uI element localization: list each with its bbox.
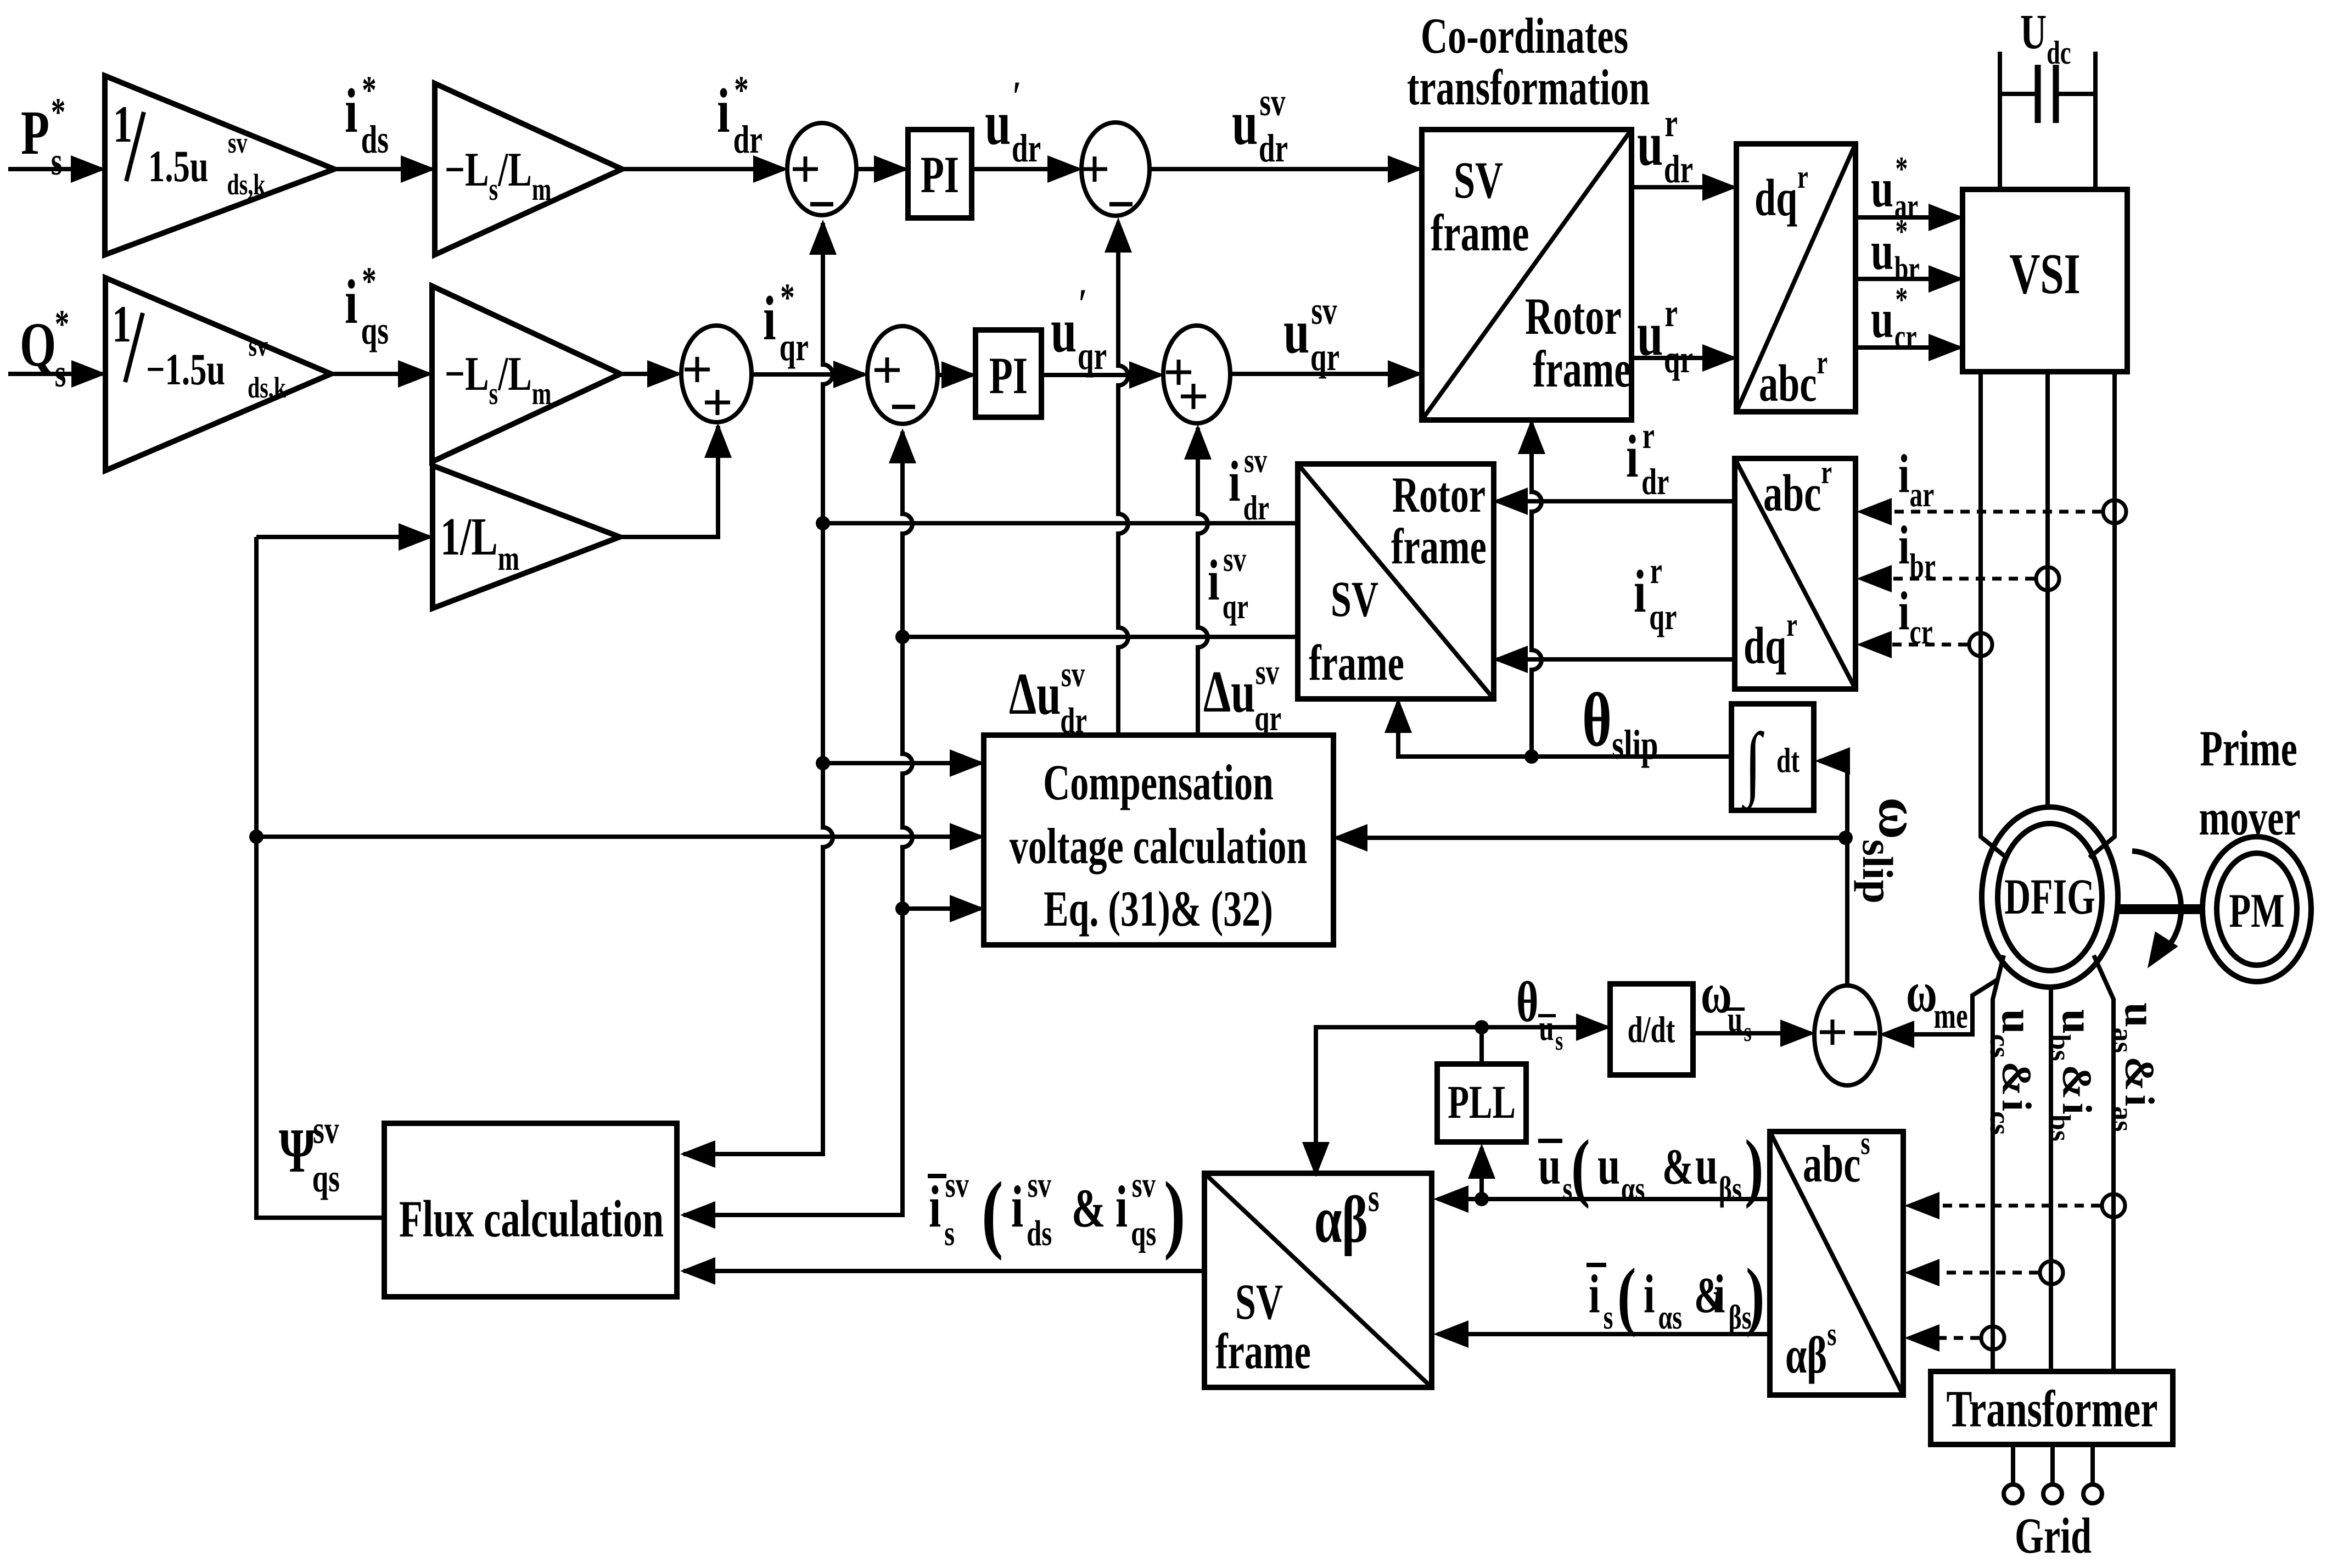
wire T2 to S1 xyxy=(622,167,784,171)
wire flux to 1/Lm input xyxy=(256,535,429,539)
svg-text:PLL: PLL xyxy=(1448,1077,1516,1128)
wire delta-u_dr from compensation to S2 xyxy=(1118,223,1128,735)
DFIG shaft xyxy=(2117,904,2204,914)
wire i_dr_sv feedback xyxy=(823,521,1298,525)
svg-text:Eq. (31)& (32): Eq. (31)& (32) xyxy=(1044,881,1273,937)
svg-text:(: ( xyxy=(1617,1252,1636,1338)
abc_s / alpha-beta block xyxy=(1770,1132,1903,1395)
wire d/dt to S6 xyxy=(1693,1031,1811,1035)
junction node to compensation input 3 xyxy=(895,901,910,916)
wire T1 to T2 xyxy=(334,167,431,171)
summing junction S5 (+ +) xyxy=(1163,326,1230,423)
wire u_ar to VSI xyxy=(1855,215,1959,220)
svg-text:d/dt: d/dt xyxy=(1628,1009,1675,1050)
svg-text:PI: PI xyxy=(921,147,959,204)
DFIG stator leads to transformer xyxy=(1993,955,2114,1371)
svg-text:Compensation: Compensation xyxy=(1043,754,1274,810)
Udc capacitor link xyxy=(2000,52,2095,189)
wire S4 feedback vertical to flux calc xyxy=(683,432,912,1215)
wire S6 output up to integrator xyxy=(1819,761,1847,985)
svg-text:transformation: transformation xyxy=(1407,59,1650,115)
summing junction S2 (+ -) xyxy=(1081,122,1150,216)
wire S1 feedback vertical to flux calc xyxy=(683,223,833,1154)
grid terminal c xyxy=(2083,1485,2102,1503)
DFIG machine xyxy=(1982,807,2118,987)
wire PLL input from u_s line xyxy=(1479,1148,1484,1199)
svg-text:VSI: VSI xyxy=(2009,242,2081,306)
svg-text:Grid: Grid xyxy=(2015,1508,2092,1564)
compensation voltage calculation block xyxy=(984,735,1333,945)
svg-text:SV: SV xyxy=(1454,152,1503,210)
svg-text:Rotor: Rotor xyxy=(1525,288,1622,346)
sensor tap u_cs i_cs xyxy=(1981,1326,2004,1349)
wire omega_slip to compensation right input xyxy=(1337,836,1846,840)
transformer output stubs to grid xyxy=(2013,1444,2093,1483)
junction node theta_slip xyxy=(1524,749,1539,764)
omega_me tap from machine xyxy=(1883,979,1998,1034)
svg-text:dt: dt xyxy=(1776,741,1800,780)
wire theta_slip from integrator xyxy=(1398,702,1731,757)
alpha-beta to SV frame block xyxy=(1204,1173,1432,1387)
transformer block xyxy=(1931,1371,2173,1444)
rotation arrow xyxy=(2132,851,2181,960)
wire delta-u_qr from compensation to S5 xyxy=(1198,428,1208,735)
wire i_qr_r xyxy=(1497,657,1735,662)
junction node i_qr_sv xyxy=(895,630,910,644)
PI controller 2 xyxy=(976,330,1041,417)
svg-text:): ) xyxy=(1746,1252,1765,1338)
current sensor tap i_cr xyxy=(1969,633,1992,656)
junction node u_s to PLL xyxy=(1475,1192,1489,1206)
wire Q input xyxy=(8,372,102,376)
svg-text:1: 1 xyxy=(112,296,131,354)
svg-text:): ) xyxy=(1164,1164,1185,1261)
wire T3 to T4 xyxy=(331,372,429,376)
flux calculation block xyxy=(384,1123,677,1297)
gain block -Ls/Lm (d axis) xyxy=(435,83,622,255)
abc_r / dq_r current block xyxy=(1735,458,1855,689)
dashed rotor current taps i_ar i_br i_cr xyxy=(1864,510,2101,514)
wire S5 to coord block u_qr_sv xyxy=(1230,372,1419,376)
svg-text:Prime: Prime xyxy=(2200,720,2297,776)
svg-text:Flux calculation: Flux calculation xyxy=(399,1191,664,1248)
svg-text:DFIG: DFIG xyxy=(2004,870,2095,925)
prime mover PM xyxy=(2202,837,2311,982)
wire ab-SV output to flux calc xyxy=(683,1269,1204,1273)
svg-text:&: & xyxy=(1662,1139,1694,1195)
svg-text:SV: SV xyxy=(1331,571,1378,627)
gain block 1/Lm xyxy=(433,466,620,608)
current sensor tap i_ar xyxy=(2103,500,2126,523)
svg-text:mover: mover xyxy=(2199,789,2300,845)
svg-text:(: ( xyxy=(1571,1124,1590,1209)
PLL block xyxy=(1437,1064,1526,1142)
wire PI2 to S5 xyxy=(1041,373,1160,377)
svg-text:&: & xyxy=(1072,1178,1106,1239)
svg-text:Co-ordinates: Co-ordinates xyxy=(1421,8,1628,64)
svg-text:PI: PI xyxy=(989,348,1028,405)
svg-text:Rotor: Rotor xyxy=(1392,467,1485,523)
junction node to compensation input 1 xyxy=(816,756,830,770)
wire branch to compensation input 1 xyxy=(823,761,980,765)
svg-text:(: ( xyxy=(982,1164,1003,1261)
integrator block xyxy=(1731,704,1814,810)
wire S4 to PI2 xyxy=(938,373,972,377)
grid terminal a xyxy=(2004,1485,2022,1503)
d/dt block xyxy=(1610,984,1693,1075)
VSI block xyxy=(1963,189,2127,372)
svg-text:1: 1 xyxy=(113,96,132,154)
wire u_s from abc_s to ab-SV xyxy=(1438,1197,1770,1201)
wire S2 to coord block u_dr_sv xyxy=(1150,167,1419,171)
wire 1/Lm to S3 bottom xyxy=(620,426,718,537)
junction node psi_qs xyxy=(249,830,264,844)
svg-text:abcs: abcs xyxy=(1803,1125,1870,1194)
gain block 1/-1.5u_dsk (Q branch) xyxy=(105,278,331,471)
svg-text:frame: frame xyxy=(1431,205,1529,262)
current sensor tap i_br xyxy=(2036,567,2059,590)
wire u_qr_r coord to dq block xyxy=(1632,356,1733,360)
summing junction S6 (+ -) speed xyxy=(1814,985,1880,1085)
junction node i_dr_sv xyxy=(816,516,830,530)
wire PLL output up xyxy=(1479,1027,1484,1064)
dashed stator taps xyxy=(1912,1204,2100,1208)
wire u_dr_r coord to dq block xyxy=(1632,185,1733,189)
summing junction S4 (+ -) xyxy=(867,326,938,424)
VSI to DFIG rotor lines xyxy=(1981,372,2115,858)
wire P input xyxy=(8,167,102,171)
wire psi_qs line to compensation input 2 xyxy=(256,835,980,839)
wire flux calc output psi xyxy=(256,537,384,1218)
wire PI1 to S2 xyxy=(972,167,1078,171)
gain block -Ls/Lm (q axis) xyxy=(432,286,620,462)
svg-text:frame: frame xyxy=(1215,1323,1311,1379)
dq_r / abc_r block xyxy=(1736,144,1855,412)
summing junction S1 (+ -) xyxy=(787,123,856,215)
wire S3 to S4 xyxy=(752,372,864,377)
junction node omega_slip xyxy=(1838,831,1853,845)
wire T4 to S3 xyxy=(620,372,678,376)
wire i_s from abc_s to ab-SV xyxy=(1438,1332,1770,1336)
wire i_dr_r xyxy=(1497,499,1735,503)
wire theta_us line to d/dt and down to ab-SV block xyxy=(1316,1027,1607,1170)
svg-text:PM: PM xyxy=(2229,884,2284,938)
svg-text:frame: frame xyxy=(1533,341,1631,399)
wire theta_slip branch up to coord block xyxy=(1532,423,1541,757)
wire u_br to VSI xyxy=(1855,277,1959,281)
sensor tap u_as i_as xyxy=(2102,1194,2125,1217)
svg-text:voltage calculation: voltage calculation xyxy=(1010,818,1308,874)
svg-text:frame: frame xyxy=(1309,635,1404,691)
sensor tap u_bs i_bs xyxy=(2040,1261,2063,1284)
wire S1 to PI1 xyxy=(856,167,905,171)
svg-text:): ) xyxy=(1745,1124,1764,1209)
summing junction S3 (+ +) xyxy=(681,326,752,422)
grid terminal b xyxy=(2043,1485,2062,1503)
junction node theta_us xyxy=(1475,1020,1489,1034)
svg-text:frame: frame xyxy=(1391,518,1487,574)
PI controller 1 xyxy=(908,130,972,218)
wire branch to compensation input 3 xyxy=(902,906,980,911)
Rotor frame / SV frame block xyxy=(1298,464,1494,699)
wire i_qr_sv feedback xyxy=(902,635,1298,639)
svg-text:Transformer: Transformer xyxy=(1946,1381,2157,1438)
co-ordinates transformation block SV frame / Rotor frame xyxy=(1422,130,1632,420)
wire u_cr to VSI xyxy=(1855,345,1959,350)
gain block 1/1.5u_dsk (P branch) xyxy=(105,76,334,255)
svg-text:SV: SV xyxy=(1235,1274,1283,1330)
